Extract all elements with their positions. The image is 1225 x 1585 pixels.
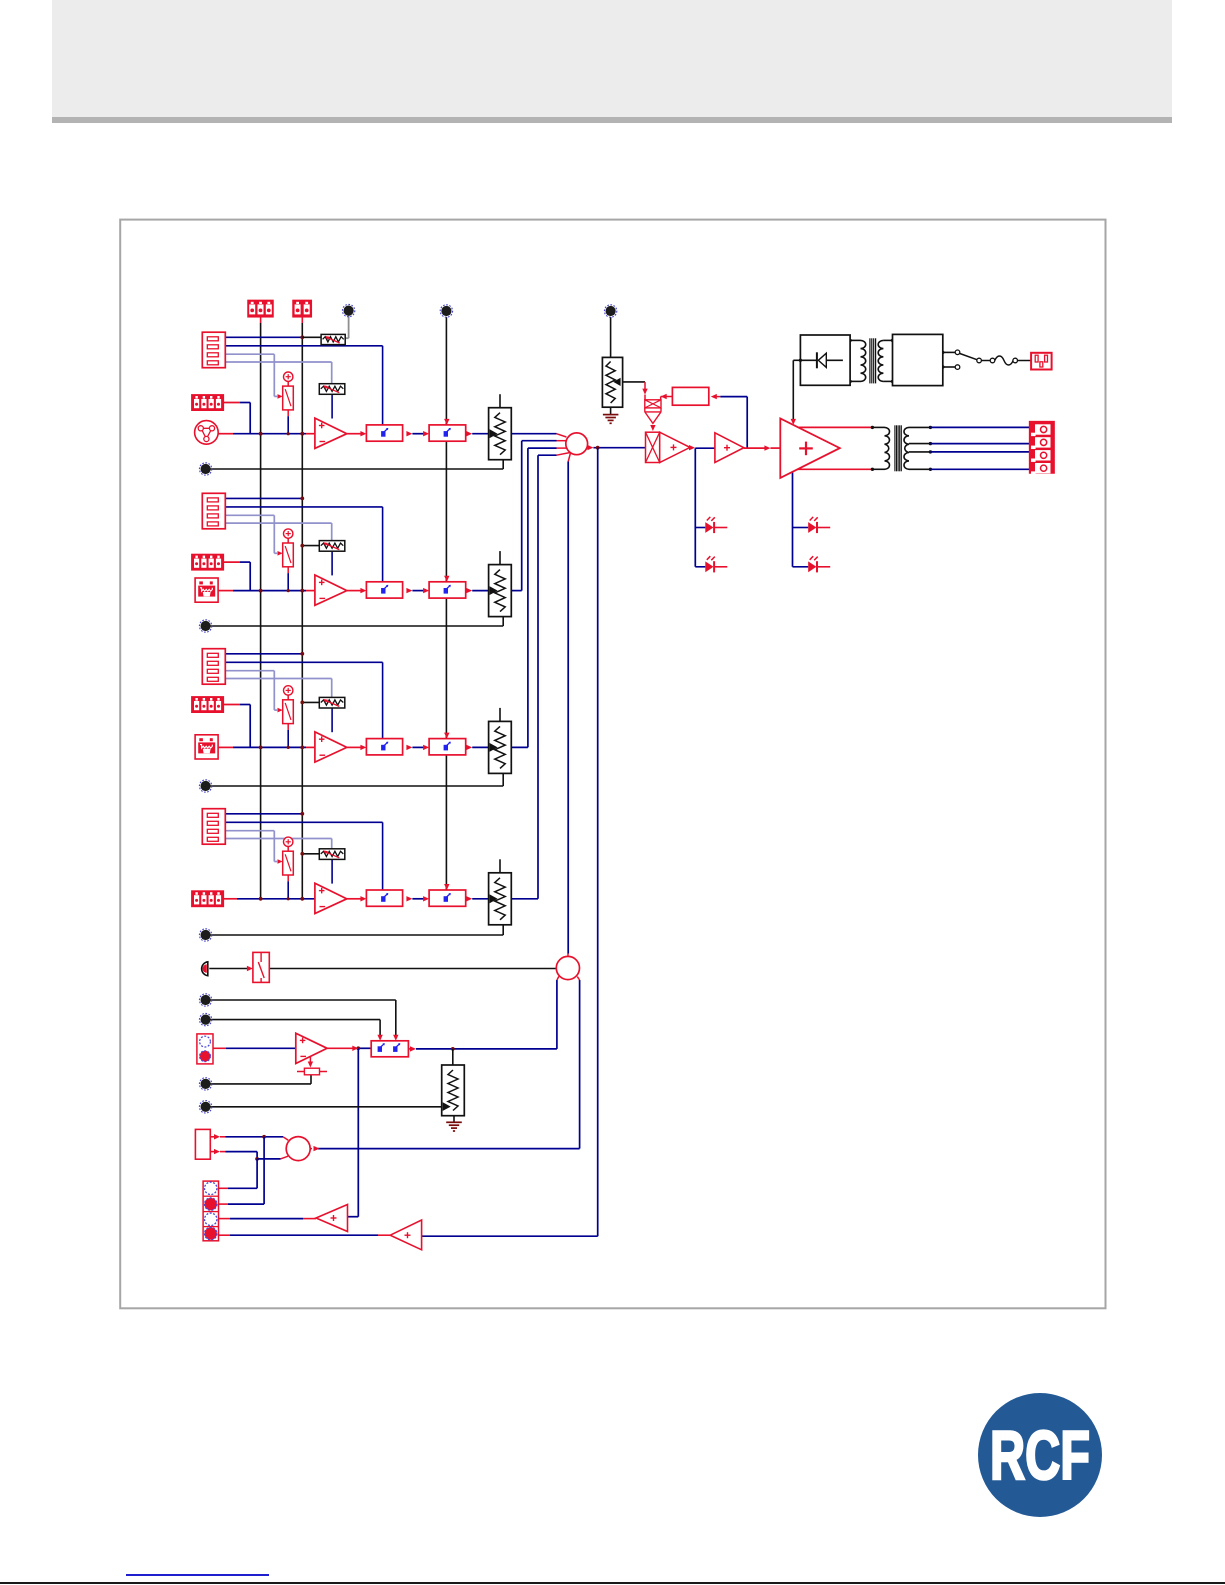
svg-text:RCF: RCF (990, 1417, 1090, 1494)
